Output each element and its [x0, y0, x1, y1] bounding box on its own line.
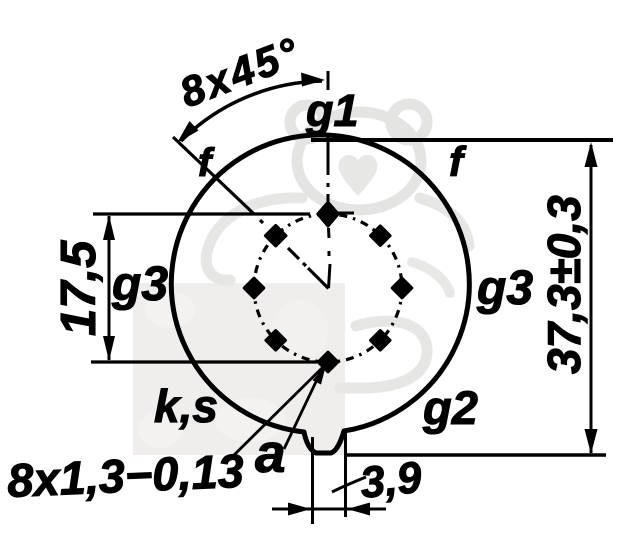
lower extension line 17,5 [91, 360, 317, 363]
leader from a label to pin a [284, 367, 323, 449]
svg-text:8x1,3−0,13: 8x1,3−0,13 [6, 444, 245, 507]
svg-text:g3: g3 [476, 262, 533, 315]
leader from 8x1,3 text to pin a [230, 368, 322, 459]
svg-text:37,3±0,3: 37,3±0,3 [538, 195, 590, 374]
svg-text:17,5: 17,5 [52, 240, 106, 336]
svg-text:g2: g2 [422, 381, 478, 434]
angle arc 8x45 [181, 81, 322, 141]
watermark bear right arm [420, 198, 469, 246]
bottom extension line 37,3 [345, 453, 606, 457]
key width extension lines [313, 432, 346, 524]
dimension line 3,9 [272, 503, 386, 516]
vertical centerline [328, 71, 330, 288]
svg-text:a: a [255, 422, 286, 484]
svg-text:3,9: 3,9 [358, 453, 424, 508]
pin g1 top [318, 202, 355, 227]
svg-text:g1: g1 [305, 85, 359, 136]
upper extension line 17,5 [93, 212, 310, 215]
pin g3 left [245, 279, 264, 298]
pin g3 right [393, 279, 412, 298]
tube envelope outline with key bump [171, 135, 469, 453]
arc arrow right [301, 73, 325, 87]
dimension line 17,5 [103, 215, 115, 361]
top extension line 37,3 [311, 138, 613, 142]
arc arrow left [177, 121, 199, 143]
dimension line 37,3 [585, 142, 598, 454]
watermark bear heart nose [339, 155, 378, 196]
pin a bottom [319, 353, 338, 372]
watermark bear foot hook [340, 321, 427, 388]
watermark bear left arm [206, 198, 302, 280]
watermark bear head [290, 104, 427, 210]
pin f upper-left [266, 226, 286, 246]
45-degree centerline to pin f [173, 137, 329, 289]
pin k,s lower-left [266, 331, 285, 350]
pin circle dashed [254, 214, 402, 362]
pin f upper-right [371, 226, 390, 245]
svg-text:g3: g3 [111, 258, 168, 311]
pin g2 lower-right [371, 331, 390, 350]
watermark bear lower paw [412, 262, 450, 293]
svg-text:k,s: k,s [154, 380, 218, 432]
leader arrowhead at pin a [313, 365, 327, 385]
leader 3,9 [332, 477, 366, 492]
watermark mottled photo block [133, 283, 345, 455]
